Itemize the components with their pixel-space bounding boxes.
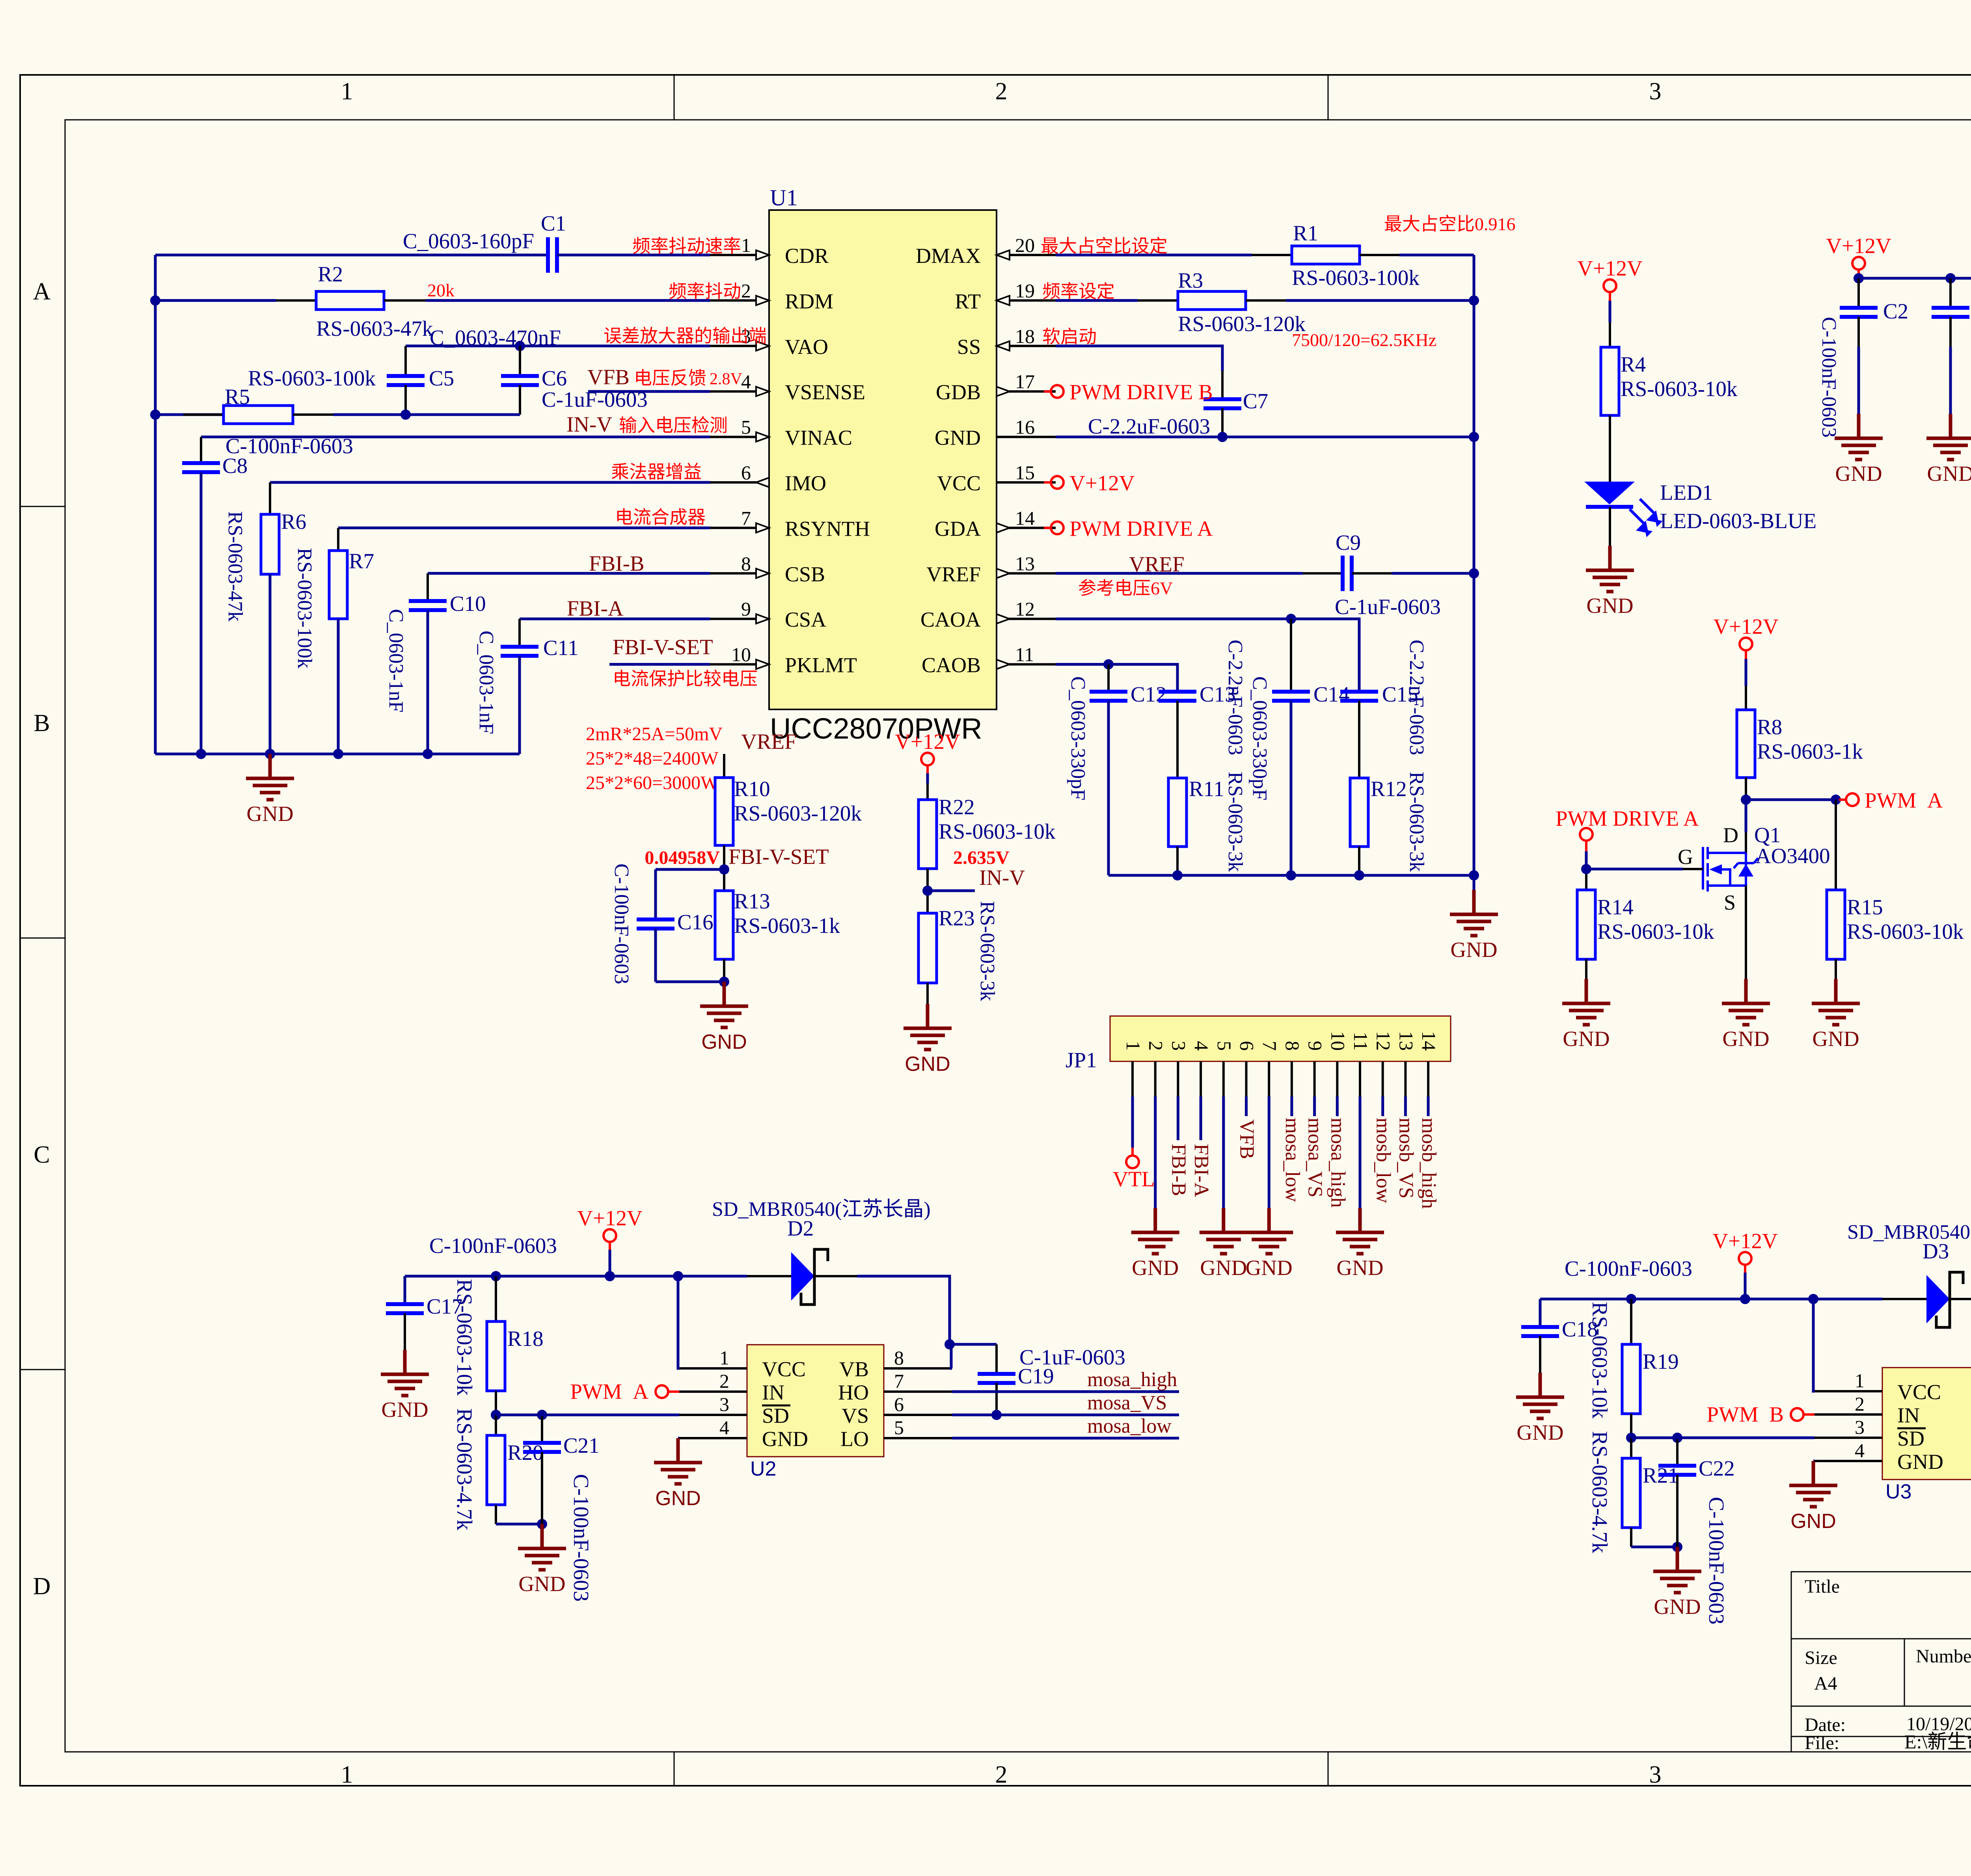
svg-text:VFB: VFB xyxy=(587,365,630,389)
power port V+12V xyxy=(1745,650,1747,659)
svg-text:mosb_VS: mosb_VS xyxy=(1395,1118,1417,1199)
junction xyxy=(1469,568,1479,579)
wire JP1 pin10 net mosa_high xyxy=(1336,1096,1339,1116)
svg-text:10: 10 xyxy=(1327,1031,1349,1051)
svg-text:17: 17 xyxy=(1015,370,1035,393)
svg-text:CSA: CSA xyxy=(785,608,826,631)
junction xyxy=(1469,295,1479,305)
resistor R2 xyxy=(316,291,384,309)
svg-text:C-1uF-0603: C-1uF-0603 xyxy=(1019,1345,1125,1369)
svg-text:C-2.2nF-0603: C-2.2nF-0603 xyxy=(1224,640,1246,755)
ground xyxy=(1789,1461,1837,1507)
pin 6 of U2 (VS) xyxy=(884,1414,952,1416)
svg-text:E:\新生命\装壳电源\控制板\Sheet1.SchDoc: E:\新生命\装壳电源\控制板\Sheet1.SchDoc xyxy=(1904,1731,1971,1753)
svg-text:4: 4 xyxy=(1855,1439,1865,1461)
svg-text:2mR*25A=50mV: 2mR*25A=50mV xyxy=(586,724,723,744)
svg-text:mosa_VS: mosa_VS xyxy=(1304,1118,1326,1197)
svg-text:LED1: LED1 xyxy=(1660,480,1713,504)
ground xyxy=(1200,1208,1248,1254)
power port V+12V xyxy=(1857,270,1860,278)
pin 5 of U2 (LO) xyxy=(884,1437,952,1439)
overline on SD pin name xyxy=(762,1405,790,1407)
pin R18 top xyxy=(495,1276,497,1321)
svg-text:VREF: VREF xyxy=(741,730,797,754)
svg-text:RS-0603-10k: RS-0603-10k xyxy=(453,1279,477,1396)
svg-text:7500/120=62.5KHz: 7500/120=62.5KHz xyxy=(1292,330,1436,350)
svg-text:14: 14 xyxy=(1015,507,1035,529)
wire +12V rail xyxy=(1859,277,1971,280)
svg-text:C-100nF-0603: C-100nF-0603 xyxy=(1818,317,1840,437)
pin 5 (VINAC) xyxy=(710,436,769,438)
svg-text:Number: Number xyxy=(1916,1646,1971,1667)
svg-text:1: 1 xyxy=(1122,1041,1144,1051)
svg-text:RS-0603-3k: RS-0603-3k xyxy=(1405,772,1428,872)
svg-text:GND: GND xyxy=(1897,1450,1943,1474)
svg-text:GND: GND xyxy=(1450,938,1497,962)
svg-text:2: 2 xyxy=(1855,1393,1865,1415)
svg-text:GDA: GDA xyxy=(935,517,981,540)
svg-text:RS-0603-4.7k: RS-0603-4.7k xyxy=(453,1408,477,1531)
capacitor C2 xyxy=(1840,308,1878,317)
pin C22 bottom xyxy=(1676,1475,1679,1547)
svg-text:VS: VS xyxy=(842,1404,869,1427)
pin C9 right xyxy=(1352,572,1392,575)
wire down to C16 xyxy=(654,869,657,919)
svg-text:R8: R8 xyxy=(1757,715,1782,739)
wire R22 to R23 xyxy=(926,869,929,913)
svg-text:RT: RT xyxy=(955,289,981,313)
pin R20 top xyxy=(495,1415,497,1435)
wire pin10 (PKLMT) net FBI-V-SET xyxy=(609,663,710,666)
svg-text:C: C xyxy=(34,1141,50,1168)
svg-text:C2: C2 xyxy=(1883,299,1908,323)
svg-text:R5: R5 xyxy=(225,385,250,409)
wire R3 to bus xyxy=(1286,299,1474,302)
svg-text:R13: R13 xyxy=(734,889,770,913)
svg-text:GND: GND xyxy=(655,1487,701,1510)
pin bottom xyxy=(1585,959,1587,979)
svg-text:电压反馈: 电压反馈 xyxy=(634,368,706,388)
pin 18 (SS) xyxy=(997,345,1056,347)
wire node to C16 xyxy=(656,868,724,871)
wire C10 to rail xyxy=(427,610,429,754)
svg-text:14: 14 xyxy=(1418,1031,1440,1051)
wire pin13 (VREF) to C9 xyxy=(1056,572,1303,575)
svg-text:R18: R18 xyxy=(507,1327,544,1351)
pin C17 bottom xyxy=(404,1313,406,1350)
svg-text:GND: GND xyxy=(1586,594,1633,618)
svg-text:1: 1 xyxy=(741,234,751,256)
capacitor C12 xyxy=(1090,692,1127,701)
svg-text:Q1: Q1 xyxy=(1754,823,1781,847)
svg-text:RS-0603-1k: RS-0603-1k xyxy=(734,914,840,938)
svg-text:20k: 20k xyxy=(427,280,455,300)
svg-text:13: 13 xyxy=(1395,1031,1417,1051)
ground xyxy=(1131,1208,1179,1254)
resistor R19 xyxy=(1622,1344,1640,1414)
title block xyxy=(1791,1572,1971,1752)
wire bus to R5 xyxy=(155,413,224,416)
svg-text:2: 2 xyxy=(995,1761,1008,1788)
svg-text:R14: R14 xyxy=(1597,895,1634,919)
svg-text:RS-0603-100k: RS-0603-100k xyxy=(293,548,316,668)
pin 2 (RDM) xyxy=(710,299,769,301)
pin 19 (RT) xyxy=(997,299,1056,301)
wire JP1 pin6 net VFB xyxy=(1245,1096,1248,1116)
pin 7 of U2 (HO) xyxy=(884,1390,952,1393)
svg-text:7: 7 xyxy=(1259,1041,1281,1051)
junction xyxy=(537,1519,547,1529)
ic U2 xyxy=(747,1345,884,1457)
svg-text:R23: R23 xyxy=(939,906,975,930)
svg-text:mosa_low: mosa_low xyxy=(1087,1415,1172,1437)
svg-text:R3: R3 xyxy=(1178,268,1203,292)
svg-text:B: B xyxy=(34,710,50,737)
svg-text:VSENSE: VSENSE xyxy=(785,380,865,404)
svg-text:RS-0603-10k: RS-0603-10k xyxy=(939,819,1056,843)
junction xyxy=(1469,432,1479,442)
svg-text:R6: R6 xyxy=(281,510,306,534)
svg-text:GND: GND xyxy=(935,426,981,450)
svg-text:A: A xyxy=(33,278,51,305)
pin D2 cathode xyxy=(814,1275,857,1277)
power port PWM DRIVE B xyxy=(1044,390,1051,393)
wire pin17 (GDB) xyxy=(1044,390,1056,393)
wire VS net mosa_VS xyxy=(952,1414,1179,1416)
pin R13 bottom xyxy=(723,959,725,982)
svg-text:GND: GND xyxy=(1132,1256,1179,1280)
resistor R10 xyxy=(715,778,733,845)
pin 4 of U3 (GND) xyxy=(1815,1460,1882,1462)
svg-text:Size: Size xyxy=(1805,1647,1837,1668)
ground xyxy=(1450,890,1498,936)
ground xyxy=(518,1524,566,1570)
svg-text:3: 3 xyxy=(1649,1761,1662,1788)
power port PWM A xyxy=(1839,798,1846,801)
capacitor C13 xyxy=(1159,692,1196,701)
wire C16 to ground node xyxy=(654,929,657,982)
svg-text:R12: R12 xyxy=(1371,777,1407,801)
svg-text:RS-0603-3k: RS-0603-3k xyxy=(1224,772,1246,872)
junction xyxy=(605,1271,615,1281)
junction xyxy=(491,1410,501,1420)
svg-text:2.8V: 2.8V xyxy=(710,370,742,388)
wire C13 to R11 xyxy=(1176,701,1179,778)
power port PWM DRIVE A xyxy=(1044,527,1051,529)
svg-text:GND: GND xyxy=(1246,1256,1293,1280)
diode D3 SD_MBR0540 xyxy=(1926,1275,1950,1323)
svg-text:3: 3 xyxy=(1855,1416,1865,1438)
wire JP1 pin3 net FBI-B xyxy=(1177,1096,1179,1140)
svg-text:RS-0603-3k: RS-0603-3k xyxy=(976,901,999,1001)
wire GND pin xyxy=(1813,1460,1815,1463)
ground xyxy=(1562,979,1610,1025)
wire C2 to ground xyxy=(1857,347,1860,414)
pin R3 left xyxy=(1138,299,1178,301)
pin R21 top xyxy=(1630,1438,1632,1458)
svg-text:C-1uF-0603: C-1uF-0603 xyxy=(1335,595,1441,619)
pin R7 top xyxy=(337,528,339,551)
svg-text:SD: SD xyxy=(762,1404,789,1427)
svg-text:GND: GND xyxy=(246,802,293,826)
wire gate xyxy=(1586,868,1683,871)
svg-text:C21: C21 xyxy=(563,1433,600,1457)
wire D2 cathode to VB xyxy=(857,1276,950,1344)
svg-text:C-2.2uF-0603: C-2.2uF-0603 xyxy=(1088,414,1210,438)
svg-text:1: 1 xyxy=(719,1347,729,1369)
capacitor C6 xyxy=(501,376,539,385)
junction xyxy=(922,886,933,896)
svg-text:C_0603-330pF: C_0603-330pF xyxy=(1248,676,1271,800)
svg-text:1: 1 xyxy=(341,78,353,105)
junction xyxy=(1740,1294,1750,1304)
svg-text:GND: GND xyxy=(1516,1420,1563,1444)
pin 12 (CAOA) xyxy=(997,618,1056,620)
pin 11 (CAOB) xyxy=(997,663,1056,666)
pin gate xyxy=(1683,868,1703,870)
wire R7 to rail xyxy=(337,619,340,754)
pin 1 (CDR) xyxy=(710,254,769,256)
power port V+12V xyxy=(926,765,929,773)
svg-text:2: 2 xyxy=(1145,1041,1167,1051)
pin C3 top xyxy=(1949,278,1952,308)
svg-text:C_0603-1nF: C_0603-1nF xyxy=(385,609,407,713)
wire PWM node to R15 xyxy=(1835,800,1837,890)
wire R10 to R13 node FBI-V-SET xyxy=(723,845,725,891)
svg-text:C-2.2nF-0603: C-2.2nF-0603 xyxy=(1405,640,1428,755)
svg-text:FBI-B: FBI-B xyxy=(589,551,645,575)
svg-text:FBI-A: FBI-A xyxy=(1190,1144,1213,1197)
wire JP1 pin12 net mosb_low xyxy=(1381,1096,1384,1116)
svg-text:8: 8 xyxy=(741,553,751,575)
svg-text:软启动: 软启动 xyxy=(1042,327,1097,347)
svg-text:11: 11 xyxy=(1350,1032,1372,1051)
svg-text:V+12V: V+12V xyxy=(1712,1229,1778,1253)
svg-text:AO3400: AO3400 xyxy=(1755,844,1830,868)
svg-text:S: S xyxy=(1724,891,1736,914)
wire JP1 pin11 to ground xyxy=(1359,1096,1362,1208)
pin C5 top xyxy=(404,346,407,376)
svg-text:C6: C6 xyxy=(542,366,567,390)
resistor R21 xyxy=(1622,1458,1640,1528)
pin C14 top xyxy=(1290,619,1292,692)
pin C21 top xyxy=(541,1415,543,1443)
svg-text:PWM DRIVE A: PWM DRIVE A xyxy=(1069,516,1213,540)
junction xyxy=(1217,432,1228,442)
svg-text:GND: GND xyxy=(1812,1027,1859,1051)
wire drain node to PWM port xyxy=(1746,798,1839,801)
wire rail to C17 xyxy=(404,1276,406,1304)
svg-text:输入电压检测: 输入电压检测 xyxy=(619,415,728,435)
wire R5 to C5/C6 xyxy=(333,413,520,416)
pin 7 (RSYNTH) xyxy=(710,527,769,529)
wire right bus xyxy=(1473,255,1475,875)
svg-text:C_0603-160pF: C_0603-160pF xyxy=(403,229,534,253)
pin R23 bottom xyxy=(926,983,929,1004)
wire JP1 pin7 to ground xyxy=(1268,1096,1271,1208)
wire to C22 bottom xyxy=(1631,1546,1677,1548)
ground xyxy=(246,754,294,800)
svg-text:GND: GND xyxy=(1722,1027,1769,1051)
svg-text:4: 4 xyxy=(719,1416,729,1439)
svg-text:RSYNTH: RSYNTH xyxy=(785,517,870,540)
wire VB node to C19 xyxy=(951,1343,997,1346)
svg-text:10: 10 xyxy=(731,644,751,666)
wire left bus xyxy=(154,255,157,754)
junction xyxy=(515,341,525,351)
svg-text:R22: R22 xyxy=(939,795,975,819)
capacitor C17 xyxy=(386,1304,424,1313)
svg-text:6: 6 xyxy=(894,1393,904,1415)
svg-text:12: 12 xyxy=(1373,1031,1395,1051)
capacitor C9 xyxy=(1343,556,1352,591)
svg-text:VREF: VREF xyxy=(926,562,981,586)
svg-text:2: 2 xyxy=(741,279,751,301)
junction xyxy=(537,1410,547,1420)
svg-text:HO: HO xyxy=(838,1381,869,1404)
junction xyxy=(150,409,160,420)
svg-text:A4: A4 xyxy=(1814,1673,1837,1694)
svg-text:C7: C7 xyxy=(1243,389,1268,413)
pin C12 top xyxy=(1107,664,1110,692)
svg-text:SD: SD xyxy=(1897,1427,1924,1450)
svg-text:RS-0603-100k: RS-0603-100k xyxy=(1292,266,1420,290)
svg-text:频率抖动速率: 频率抖动速率 xyxy=(632,236,741,256)
transistor Q1 AO3400 xyxy=(1703,847,1746,891)
pin D3 anode xyxy=(1882,1298,1926,1300)
capacitor C19 xyxy=(978,1374,1015,1383)
wire pin5 (VINAC) xyxy=(201,435,710,438)
svg-text:7: 7 xyxy=(741,507,751,529)
pin C6 top xyxy=(519,346,521,376)
resistor R1 xyxy=(1292,246,1360,264)
wire R4 to LED1 xyxy=(1609,415,1611,482)
svg-text:C8: C8 xyxy=(222,454,248,478)
pin R4 top xyxy=(1609,322,1611,347)
wire pin4 (VSENSE) net VFB xyxy=(588,390,710,393)
pin R3 right xyxy=(1246,299,1286,301)
pin 17 (GDB) xyxy=(997,390,1056,393)
ground xyxy=(654,1438,702,1484)
power port V+12V xyxy=(1609,292,1611,301)
wire pin20 to R1 xyxy=(1056,254,1252,257)
svg-text:最大占空比0.916: 最大占空比0.916 xyxy=(1384,214,1516,234)
svg-text:C22: C22 xyxy=(1699,1456,1735,1480)
svg-text:C_0603-1nF: C_0603-1nF xyxy=(475,631,497,734)
svg-text:PKLMT: PKLMT xyxy=(785,653,857,677)
svg-text:7: 7 xyxy=(894,1370,904,1392)
svg-text:JP1: JP1 xyxy=(1066,1048,1097,1072)
junction xyxy=(333,749,343,759)
pin R20 bottom xyxy=(495,1505,497,1524)
wire C11 to rail xyxy=(518,656,521,754)
pin R11 bottom xyxy=(1176,847,1179,875)
pin C9 left xyxy=(1303,572,1343,575)
ground xyxy=(1926,414,1971,460)
pin R5 left xyxy=(183,413,224,416)
svg-text:C-100nF-0603: C-100nF-0603 xyxy=(1565,1256,1692,1280)
svg-text:25*2*48=2400W: 25*2*48=2400W xyxy=(586,748,719,769)
svg-text:VCC: VCC xyxy=(1897,1380,1941,1404)
resistor R12 xyxy=(1350,778,1368,847)
pin C5 bottom xyxy=(404,385,407,415)
svg-text:参考电压6V: 参考电压6V xyxy=(1078,578,1173,598)
svg-text:R10: R10 xyxy=(734,777,770,801)
svg-text:误差放大器的输出端: 误差放大器的输出端 xyxy=(604,326,767,346)
ground xyxy=(1516,1373,1564,1418)
svg-text:2: 2 xyxy=(719,1370,729,1392)
svg-text:16: 16 xyxy=(1015,416,1035,438)
svg-text:电流保护比较电压: 电流保护比较电压 xyxy=(613,669,758,689)
pin R12 bottom xyxy=(1358,847,1360,875)
svg-text:0.04958V: 0.04958V xyxy=(645,847,720,868)
wire GND pin xyxy=(678,1437,679,1440)
svg-text:VB: VB xyxy=(839,1357,869,1381)
junction xyxy=(265,749,275,759)
pin C7 top xyxy=(1221,371,1224,399)
svg-text:C-100nF-0603: C-100nF-0603 xyxy=(1705,1497,1729,1625)
diode D2 SD_MBR0540 xyxy=(791,1252,814,1301)
junction xyxy=(719,977,729,987)
pin 16 (GND) xyxy=(997,436,1056,438)
svg-text:FBI-B: FBI-B xyxy=(1167,1144,1190,1196)
ground xyxy=(1653,1547,1701,1593)
svg-text:V+12V: V+12V xyxy=(1069,471,1135,495)
svg-text:PWM A: PWM A xyxy=(570,1379,648,1403)
pin 1 of U2 (VCC) xyxy=(679,1367,747,1370)
svg-text:9: 9 xyxy=(1304,1041,1326,1051)
pin C11 top xyxy=(518,619,521,647)
svg-text:PWM B: PWM B xyxy=(1706,1402,1784,1426)
wire pin12 (CAOA) xyxy=(1056,619,1359,692)
led LED1 xyxy=(1584,482,1635,504)
wire C1 to pin1 xyxy=(557,254,710,257)
wire pin18 (SS) to C7 xyxy=(1056,346,1222,371)
wire JP1 pin13 net mosb_VS xyxy=(1404,1096,1407,1116)
svg-text:GND: GND xyxy=(1563,1027,1610,1051)
pin C2 top xyxy=(1857,278,1860,308)
pin R1 right xyxy=(1360,254,1399,256)
junction xyxy=(1103,659,1114,670)
svg-text:4: 4 xyxy=(741,370,751,393)
wire VREF to R10 xyxy=(723,754,725,778)
junction xyxy=(1469,870,1479,880)
junction xyxy=(150,295,160,305)
junction xyxy=(1172,870,1183,880)
capacitor C3 xyxy=(1932,308,1969,317)
svg-text:11: 11 xyxy=(1015,644,1034,666)
svg-text:C16: C16 xyxy=(677,910,714,934)
pin D2 anode xyxy=(747,1275,791,1277)
pin C3 bottom xyxy=(1949,317,1952,347)
capacitor C11 xyxy=(501,647,538,656)
wire pin7 (RSYNTH) xyxy=(338,527,710,529)
junction xyxy=(1286,870,1296,880)
svg-text:U1: U1 xyxy=(770,185,798,210)
svg-text:3: 3 xyxy=(1168,1041,1190,1051)
capacitor C10 xyxy=(409,601,447,610)
svg-text:VFB: VFB xyxy=(1236,1119,1258,1159)
ground xyxy=(1586,546,1634,592)
svg-text:GND: GND xyxy=(381,1398,428,1422)
svg-text:电流合成器: 电流合成器 xyxy=(615,507,706,527)
ground xyxy=(1336,1208,1384,1254)
svg-text:5: 5 xyxy=(1213,1041,1235,1051)
svg-text:PWM A: PWM A xyxy=(1865,788,1943,812)
svg-text:IN: IN xyxy=(762,1381,784,1404)
svg-text:8: 8 xyxy=(894,1347,904,1369)
wire pin3 (VAO) xyxy=(406,344,710,347)
